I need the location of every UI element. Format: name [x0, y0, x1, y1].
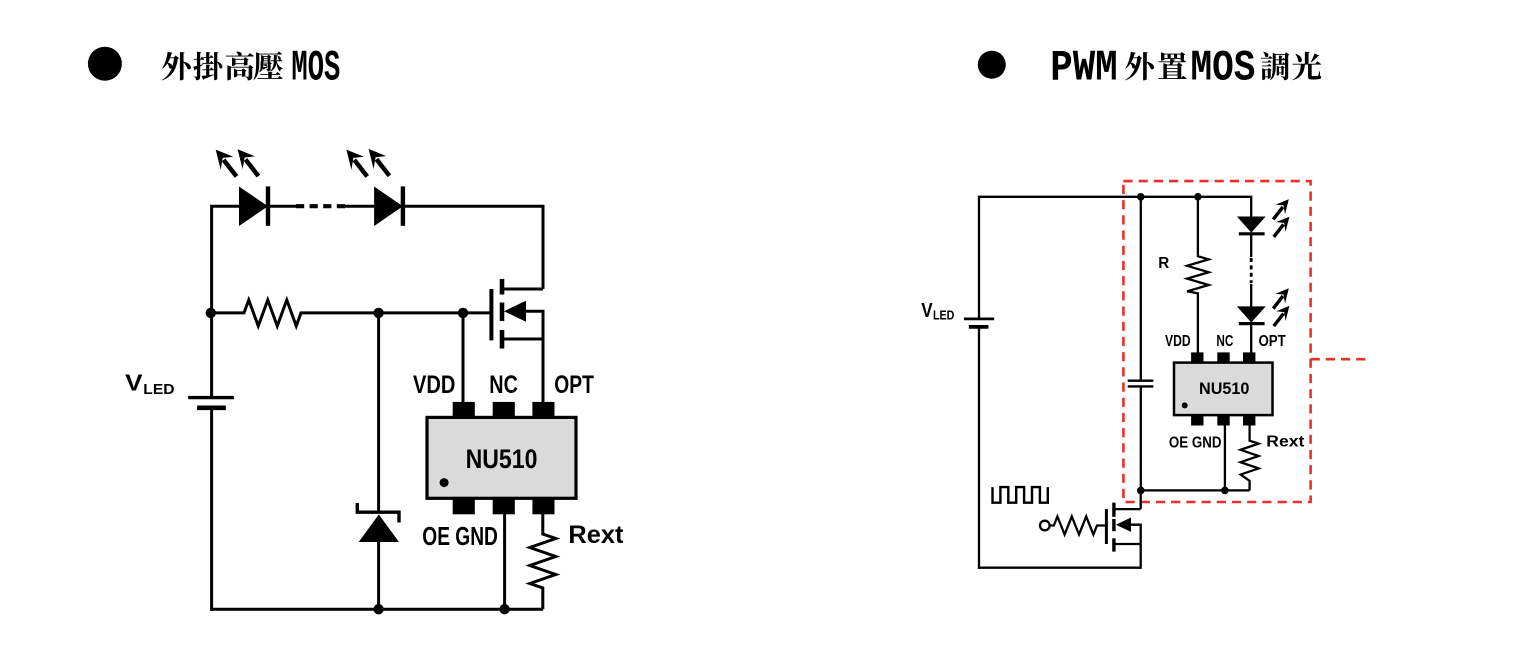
zener diode Z1 [357, 503, 399, 542]
svg-text:NU510: NU510 [1199, 380, 1249, 398]
svg-text:VDD: VDD [1165, 333, 1191, 350]
svg-text:MOS: MOS [1191, 44, 1256, 94]
gate input terminal circle [1040, 521, 1050, 531]
svg-text:NC: NC [489, 371, 518, 399]
node: junction at VDD column [458, 308, 468, 318]
node: junction at VLED column [206, 308, 216, 318]
svg-text:Rext: Rext [568, 521, 624, 549]
label VLED (right) [921, 300, 954, 322]
svg-text:VDD: VDD [413, 371, 455, 399]
IC U2 NU510 pins (right, top row) [1191, 352, 1255, 362]
LED D3 (right top) [1237, 217, 1266, 234]
battery VLED (left) [188, 398, 234, 408]
svg-text:LED: LED [143, 381, 174, 398]
wire: LED string to OPT pin [1250, 324, 1252, 353]
IC U1 NU510 body (left) [427, 417, 576, 498]
svg-text:MOS: MOS [291, 44, 340, 94]
LED D4 light arrows [1273, 288, 1289, 326]
wire: Q1 source to OPT pin [542, 311, 545, 403]
wire: bottom rail (left circuit) [210, 608, 543, 611]
wire: LED string upper solid lead [1250, 234, 1252, 257]
dashed demarcation box (red) [1123, 181, 1310, 502]
IC U2 pin-1 dot [1182, 402, 1188, 408]
wire: VLED negative lead (right) [978, 328, 980, 569]
svg-text:R: R [1158, 255, 1169, 272]
svg-text:V: V [921, 300, 933, 322]
wire: capacitor upper lead [1140, 197, 1142, 380]
node: GND-bottom junction [499, 604, 509, 614]
wire: VLED positive lead [210, 313, 213, 396]
LED D2 light arrows [346, 149, 389, 177]
wire: zener branch upper lead [377, 313, 380, 512]
node: top junction at R column [1194, 193, 1202, 201]
wire: in-box bottom rail [1141, 489, 1250, 491]
wire: Q2 source to bottom rail [1140, 544, 1142, 569]
LED D3 light arrows [1273, 199, 1289, 237]
wire: bottom rail (right circuit) [978, 567, 1141, 569]
LED D4 (right bottom) [1237, 306, 1266, 323]
LED D1 light arrows [216, 149, 259, 176]
capacitor C1 [1128, 381, 1154, 387]
wire: dashed LED-string continuation [296, 204, 345, 208]
label VLED (left) [125, 369, 174, 397]
svg-text:Rext: Rext [1266, 433, 1305, 450]
node: junction at zener column [373, 308, 383, 318]
wire: gate rail with resistor R1 [212, 300, 490, 326]
title bullet (left) [88, 47, 122, 81]
IC U1 NU510 pins (left, bottom row) [453, 498, 555, 514]
title text 調光 (right) [1261, 52, 1321, 81]
wire: VLED negative lead to bottom rail [210, 409, 213, 611]
IC U2 NU510 pins (right, bottom row) [1191, 415, 1255, 425]
resistor Rext (left) [530, 513, 556, 609]
node: capacitor-drain junction [1137, 487, 1145, 495]
svg-text:LED: LED [933, 307, 954, 322]
svg-text:OE GND: OE GND [422, 521, 498, 551]
wire: top rail (left circuit) [212, 206, 297, 313]
wire: VDD pin lead [462, 313, 465, 403]
svg-text:OPT: OPT [1259, 333, 1286, 350]
wire: GND pin lead (right) [1224, 426, 1226, 491]
svg-text:NC: NC [1216, 333, 1233, 350]
wire: LED string lower solid lead [1250, 284, 1252, 307]
wire: LED string dotted continuation [1250, 258, 1253, 283]
node: GND-bottom junction (right) [1221, 487, 1229, 495]
wire: top rail (right circuit) [979, 197, 1251, 318]
title text 外置 (right) [1125, 52, 1187, 81]
IC U1 pin-1 dot [440, 478, 449, 487]
wire: Q2 drain to junction [1140, 490, 1142, 509]
dashed stub to the right (red) [1311, 358, 1370, 361]
PWM square-wave symbol [993, 487, 1048, 503]
transistor Q2 (NMOS, right) [1106, 503, 1140, 552]
svg-text:OE GND: OE GND [1169, 435, 1222, 452]
node: zener-bottom junction [373, 604, 383, 614]
svg-text:V: V [125, 369, 143, 395]
title text 外掛高壓 (left) [162, 52, 283, 81]
svg-text:NU510: NU510 [466, 444, 538, 474]
IC U2 NU510 body (right) [1174, 363, 1273, 416]
wire: GND pin to bottom rail [503, 513, 506, 609]
svg-text:OPT: OPT [554, 371, 594, 399]
wire: zener lower lead [377, 541, 380, 609]
resistor Rext (right) [1241, 426, 1259, 491]
resistor Rg (gate) [1050, 517, 1105, 535]
title bullet (right) [978, 51, 1006, 79]
LED D1 [239, 186, 268, 226]
wire: capacitor lower lead [1140, 387, 1142, 491]
IC U1 NU510 pins (left, top row) [453, 402, 555, 418]
wire: top rail right part (left circuit) [344, 206, 543, 289]
svg-text:PWM: PWM [1050, 44, 1118, 94]
resistor R (right) [1187, 197, 1209, 353]
node: top junction at capacitor column [1137, 193, 1145, 201]
LED D2 [374, 186, 403, 226]
battery VLED (right) [964, 319, 994, 327]
transistor Q1 (NMOS, left) [491, 279, 543, 349]
